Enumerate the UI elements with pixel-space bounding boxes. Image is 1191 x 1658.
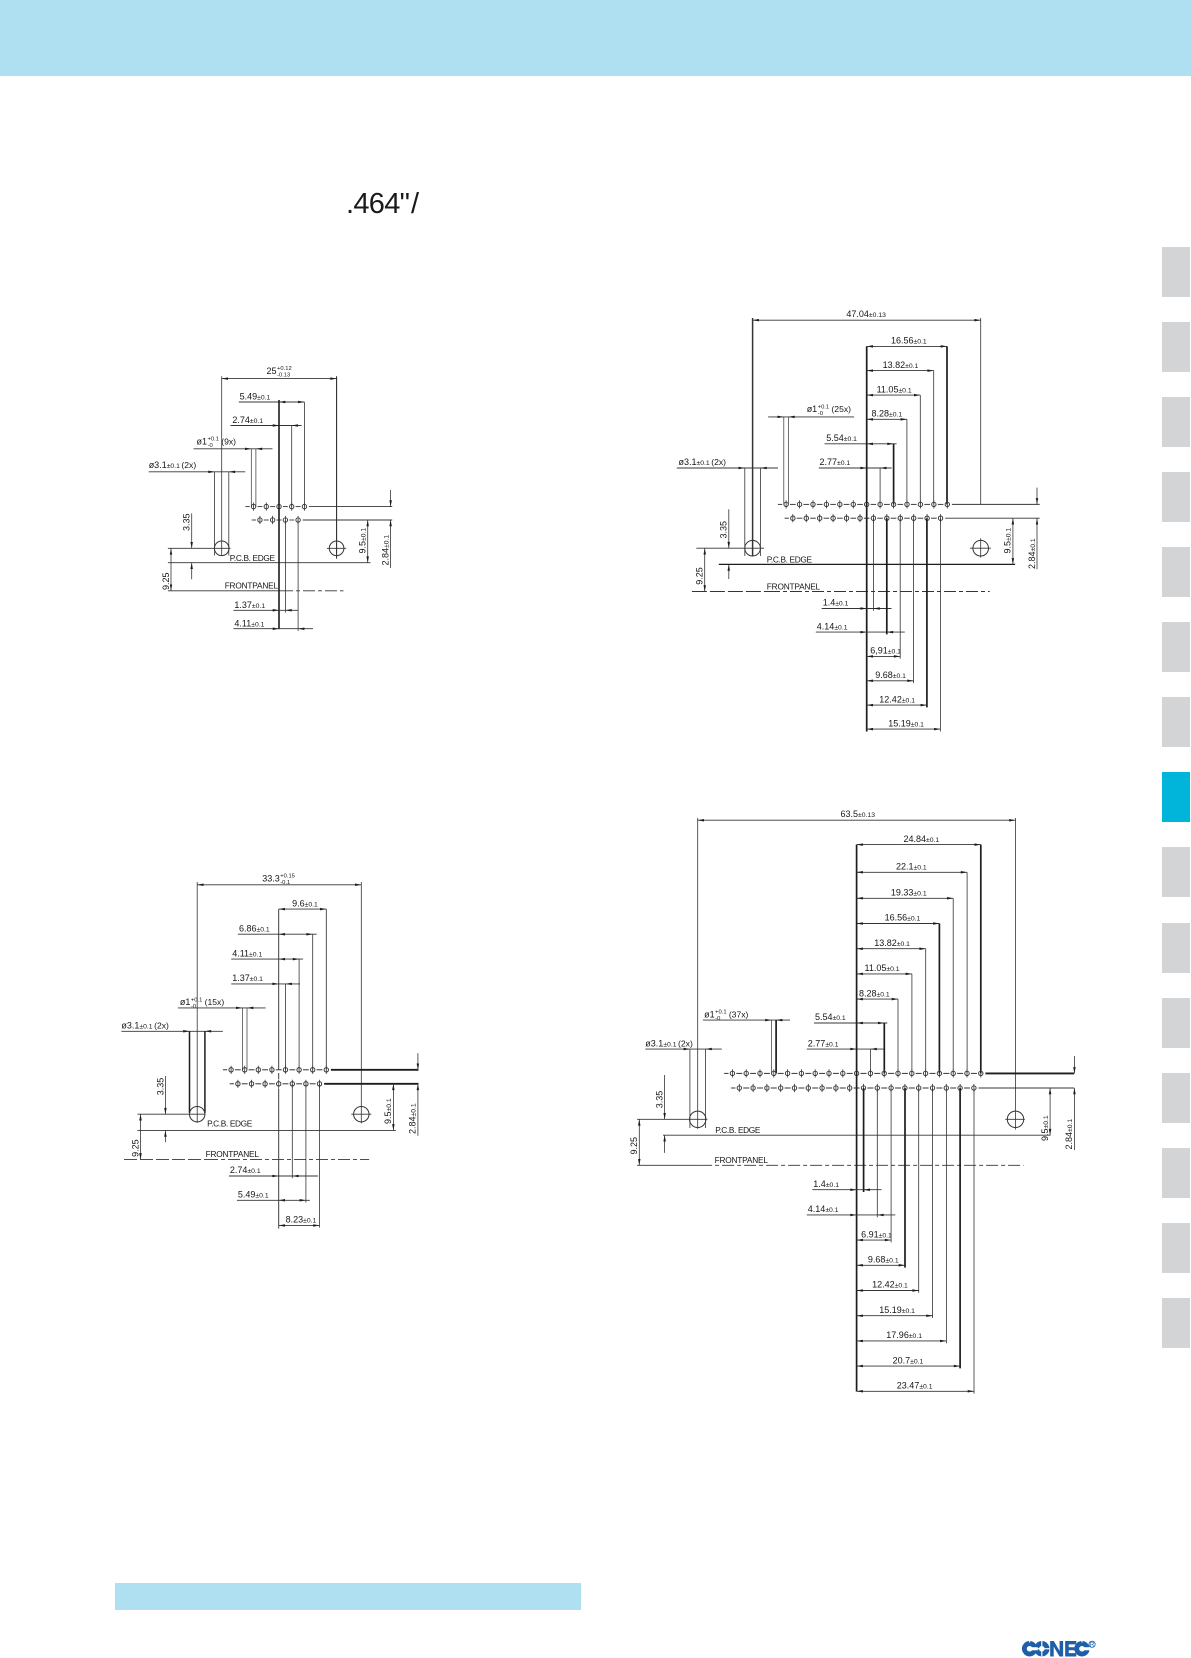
drawing4 dim 2.84 right	[1064, 1056, 1076, 1150]
drawing4 dim 5.54	[814, 1012, 887, 1024]
drawing2 mounting hole left	[696, 540, 764, 556]
drawing2 dim 2.84 right	[1027, 488, 1038, 570]
drawing4 ext line 9.68 bottom	[904, 1088, 906, 1268]
svg-text:1.37±0.1: 1.37±0.1	[232, 973, 263, 983]
drawing4 dim dia1 (37x)	[703, 1010, 790, 1023]
svg-text:5.49±0.1: 5.49±0.1	[238, 1190, 269, 1200]
svg-text:11.05±0.1: 11.05±0.1	[877, 384, 912, 394]
drawing1 PCB edge line	[168, 553, 371, 563]
drawing4 ext line 12.42 bottom	[918, 1088, 920, 1293]
drawing4 ext line 11.05	[911, 974, 913, 1074]
drawing2 ext line 11.05	[919, 395, 921, 504]
drawing2 dim 9.5 right	[1003, 518, 1014, 564]
drawing3 dia3.1 tangent ext lines	[190, 1031, 205, 1113]
svg-text:6.86±0.1: 6.86±0.1	[239, 923, 270, 933]
drawing4 ext line 1.4 bottom	[863, 1088, 865, 1192]
svg-text:FRONTPANEL: FRONTPANEL	[206, 1149, 260, 1159]
drawing3 dim 4.11	[231, 948, 303, 960]
svg-text:9.5±0.1: 9.5±0.1	[358, 528, 368, 554]
drawing4 ext line 5.54 thick	[883, 1023, 885, 1073]
svg-text:5.54±0.1: 5.54±0.1	[826, 433, 857, 443]
drawing2 frontpanel line	[692, 581, 990, 591]
drawing4 dim 20.7 bottom	[857, 1355, 961, 1367]
drawing4 dim 9.5 right	[1040, 1088, 1051, 1141]
drawing1 dia1 tangent ext lines	[251, 449, 256, 507]
drawing4 frontpanel line	[637, 1155, 1024, 1165]
drawing1 mounting hole left	[168, 541, 231, 556]
drawing1 bottom row pins (4x)	[258, 516, 301, 524]
drawing2 dim 47.04	[753, 309, 981, 321]
svg-text:2.77±0.1: 2.77±0.1	[820, 457, 851, 467]
svg-text:47.04±0.13: 47.04±0.13	[846, 309, 886, 319]
drawing1 frontpanel line	[168, 581, 344, 591]
svg-text:23.47±0.1: 23.47±0.1	[897, 1381, 933, 1391]
drawing3 ext line 5.49	[305, 1084, 307, 1203]
svg-text:20.7±0.1: 20.7±0.1	[893, 1355, 924, 1365]
svg-text:1.4±0.1: 1.4±0.1	[813, 1179, 839, 1189]
drawing3 dim 2.84 right	[408, 1053, 419, 1136]
drawing1 dim 2.74	[231, 415, 302, 427]
drawing4 dim 9.25	[629, 1119, 641, 1165]
drawing2 dim 4.14 bottom	[816, 621, 905, 633]
drawing4 ext line 4.14 bottom	[876, 1088, 878, 1217]
drawing4 top pin row line	[724, 1072, 1074, 1074]
svg-text:15.19±0.1: 15.19±0.1	[888, 718, 924, 728]
drawing2 mounting hole right	[970, 538, 991, 557]
svg-text:9.5±0.1: 9.5±0.1	[1040, 1115, 1050, 1141]
drawing4 dim 12.42 bottom	[857, 1280, 919, 1292]
drawing4 dim 1.4 bottom	[812, 1179, 881, 1191]
drawing3 PCB edge line	[138, 1119, 396, 1131]
svg-text:4.14±0.1: 4.14±0.1	[817, 621, 848, 631]
svg-text:25+0.12-0.13: 25+0.12-0.13	[267, 366, 292, 379]
svg-text:16.56±0.1: 16.56±0.1	[891, 336, 927, 346]
drawing3 dim 5.49	[237, 1190, 310, 1202]
svg-text:P.C.B. EDGE: P.C.B. EDGE	[715, 1125, 761, 1135]
drawing4 dim dia3.1 (2x)	[645, 1038, 722, 1050]
svg-text:6.91±0.1: 6.91±0.1	[861, 1229, 892, 1239]
drawing2 dim 8.28	[867, 409, 907, 421]
drawing3 centerline	[278, 909, 280, 1228]
drawing2 ext line 2.77	[879, 468, 881, 504]
drawing2 ext line 6,91 bottom	[899, 518, 901, 659]
drawing3 top row pins (8x)	[229, 1066, 329, 1074]
drawing1 dim 25 +0.12/-0.13	[222, 366, 337, 380]
drawing2 dim dia3.1 (2x)	[677, 457, 778, 469]
drawing1 bottom pin row line	[252, 519, 393, 521]
drawing4 dim 8.28	[857, 988, 898, 1000]
svg-text:3.35: 3.35	[155, 1078, 165, 1096]
svg-text:9.6±0.1: 9.6±0.1	[292, 898, 318, 908]
drawing3 frontpanel line	[124, 1149, 369, 1159]
drawing3 dim 8.23	[279, 1215, 320, 1227]
svg-text:P.C.B. EDGE: P.C.B. EDGE	[767, 555, 813, 565]
drawing4 ext line 2.77	[870, 1049, 872, 1073]
svg-text:2.84±0.1: 2.84±0.1	[380, 535, 390, 566]
drawing3 ext line 6.86	[312, 934, 314, 1070]
svg-text:9.5±0.1: 9.5±0.1	[383, 1098, 393, 1124]
drawing1 top row pins (5x)	[251, 503, 306, 511]
CONEC logo	[1022, 1640, 1096, 1658]
drawing3 ext line 9.6	[325, 909, 327, 1070]
svg-text:8.28±0.1: 8.28±0.1	[872, 409, 903, 419]
drawing2 ext line 16.56	[946, 346, 948, 504]
drawing1 dim 4.11	[233, 619, 313, 630]
drawing4 dim 3.35	[654, 1075, 666, 1153]
drawing1 dim25 left extension line	[221, 376, 223, 556]
drawing2 ext line 4.14 bottom	[886, 518, 888, 634]
drawing4 mounting hole left	[637, 1111, 707, 1127]
drawing2 ext line 13.82	[933, 371, 935, 505]
drawing4 ext line 16.56	[938, 924, 940, 1074]
drawing2 dim 2.77	[819, 457, 892, 469]
svg-text:9.5±0.1: 9.5±0.1	[1003, 528, 1013, 554]
svg-text:11.05±0.1: 11.05±0.1	[865, 963, 900, 973]
svg-text:5.54±0.1: 5.54±0.1	[815, 1012, 846, 1022]
drawing2 ext line 9.68 bottom	[913, 518, 915, 683]
svg-text:ø3.1±0.1(2x): ø3.1±0.1(2x)	[679, 457, 727, 467]
drawing2 dim 16.56	[867, 336, 947, 348]
drawing4 ext line 20.7 bottom	[959, 1088, 961, 1368]
svg-text:2.77±0.1: 2.77±0.1	[808, 1038, 839, 1048]
svg-text:ø3.1±0.1(2x): ø3.1±0.1(2x)	[149, 460, 197, 470]
drawing1 ext line pin4 top	[291, 426, 293, 507]
svg-text:3.35: 3.35	[719, 521, 729, 539]
drawing1 dim 2.84 right	[380, 490, 392, 568]
drawing4 dim 16.56	[857, 913, 940, 925]
svg-text:13.82±0.1: 13.82±0.1	[883, 360, 919, 370]
svg-text:8.28±0.1: 8.28±0.1	[859, 988, 890, 998]
svg-text:2.84±0.1: 2.84±0.1	[408, 1103, 418, 1134]
svg-text:9.25: 9.25	[161, 572, 171, 590]
drawing1 mounting hole right	[327, 541, 346, 556]
drawing4 ext line 22.1	[966, 872, 968, 1073]
drawing4 dim63 left extension line	[697, 818, 699, 1129]
svg-text:ø3.1±0.1(2x): ø3.1±0.1(2x)	[645, 1038, 693, 1048]
svg-text:12.42±0.1: 12.42±0.1	[872, 1280, 908, 1290]
drawing4 dim 17.96 bottom	[857, 1330, 947, 1342]
drawing1 dim 3.35	[181, 513, 193, 579]
drawing2 ext line 1.4 bottom	[873, 518, 875, 611]
drawing2 dim 9.25	[695, 548, 707, 591]
drawing1 ext line pin5 top	[303, 402, 305, 507]
drawing4 dim 63.5	[698, 809, 1016, 821]
svg-text:ø3.1±0.1(2x): ø3.1±0.1(2x)	[121, 1021, 169, 1031]
drawing2 dim47 left extension line	[752, 318, 754, 557]
svg-text:9.25: 9.25	[131, 1139, 141, 1157]
drawing4 dim 9.68 bottom	[857, 1255, 905, 1267]
svg-text:16.56±0.1: 16.56±0.1	[885, 913, 921, 923]
drawing4 top row pins (19x)	[730, 1069, 983, 1077]
drawing3 ext line 1.37	[285, 984, 287, 1070]
drawing1 top pin row line	[245, 506, 392, 508]
drawing4 dim 19.33	[857, 888, 954, 900]
drawing4 ext line 15.19 bottom	[932, 1088, 934, 1318]
drawing3 top pin row line	[223, 1069, 419, 1071]
drawing3 dim 9.5 right	[383, 1084, 394, 1131]
drawing3 ext line 8.23	[319, 1084, 321, 1228]
drawing3 dim 2.74	[229, 1165, 318, 1177]
drawing3 dim 9.25	[131, 1114, 142, 1159]
drawing3 mounting hole right	[351, 1107, 371, 1122]
drawing4 dim 6.91 bottom	[857, 1229, 892, 1241]
svg-text:19.33±0.1: 19.33±0.1	[891, 888, 927, 898]
drawing4 ext line 23.47 bottom	[973, 1088, 975, 1394]
drawing4 ext line 6.91 bottom	[890, 1088, 892, 1242]
drawing2 ext line 15.19 bottom	[939, 518, 941, 731]
drawing2 dim47 right extension line	[980, 318, 982, 504]
drawing1 ext line pin3 bottom	[284, 520, 286, 613]
svg-text:ø1+0.1-0(9x): ø1+0.1-0(9x)	[197, 436, 237, 449]
drawing4 dim63 right extension line	[1015, 818, 1017, 1130]
svg-text:63.5±0.13: 63.5±0.13	[841, 809, 876, 819]
svg-text:9.68±0.1: 9.68±0.1	[875, 670, 906, 680]
drawing4 dim 4.14 bottom	[807, 1204, 896, 1216]
drawing3 bottom pin row line	[230, 1083, 419, 1085]
svg-text:ø1+0.1-0(25x): ø1+0.1-0(25x)	[807, 404, 851, 417]
drawing4 dim 23.47 bottom	[857, 1381, 974, 1393]
svg-text:9.25: 9.25	[629, 1137, 639, 1155]
drawing1 dim dia1 (9x)	[194, 436, 273, 450]
svg-text:P.C.B. EDGE: P.C.B. EDGE	[230, 553, 276, 563]
drawing3 dim 9.6	[279, 898, 327, 910]
drawing2 dim 13.82	[867, 360, 934, 372]
drawing2 dim 5.54	[825, 433, 897, 445]
drawing1 dim 1.37	[233, 600, 298, 611]
drawing4 dim 13.82	[857, 938, 926, 950]
drawing2 dim 11.05	[867, 384, 921, 396]
drawing3 dim 3.35	[155, 1076, 166, 1142]
drawing4 dia3.1 tangent ext lines	[690, 1049, 706, 1128]
svg-text:5.49±0.1: 5.49±0.1	[240, 391, 271, 401]
drawing2 bottom row pins (12x)	[791, 514, 943, 522]
svg-text:1.37±0.1: 1.37±0.1	[234, 600, 265, 610]
drawing2 PCB edge line	[719, 555, 1015, 565]
svg-text:2.84±0.1: 2.84±0.1	[1027, 538, 1037, 569]
svg-text:4.11±0.1: 4.11±0.1	[234, 619, 264, 629]
drawing2 dim 3.35	[719, 509, 731, 579]
drawing4 ext line 13.82	[925, 949, 927, 1074]
drawing2 ext line 8.28	[906, 419, 908, 504]
drawing3 dim dia1 (15x)	[178, 997, 266, 1010]
drawing4 ext line 17.96 bottom	[945, 1088, 947, 1343]
drawing1 dim 9.5 right	[358, 520, 369, 563]
svg-text:8.23±0.1: 8.23±0.1	[286, 1215, 317, 1225]
drawing2 ext line 12.42 bottom	[926, 518, 928, 707]
svg-text:P.C.B. EDGE: P.C.B. EDGE	[207, 1119, 253, 1129]
drawing4 mounting hole right	[1005, 1111, 1025, 1127]
drawing2 top pin row line	[778, 503, 1040, 505]
svg-text:FRONTPANEL: FRONTPANEL	[225, 581, 279, 591]
svg-text:4.14±0.1: 4.14±0.1	[808, 1204, 839, 1214]
svg-text:9.25: 9.25	[695, 567, 705, 585]
drawing1 dim25 right extension line	[336, 376, 338, 558]
header bar	[0, 0, 1191, 76]
svg-text:33.3+0.15-0.1: 33.3+0.15-0.1	[262, 874, 295, 887]
svg-text:2.84±0.1: 2.84±0.1	[1064, 1119, 1074, 1150]
drawing4 dim 15.19 bottom	[857, 1305, 933, 1317]
drawing3 ext line 4.11	[298, 959, 300, 1070]
drawing2 dim 9.68 bottom	[867, 670, 914, 682]
svg-text:1.4±0.1: 1.4±0.1	[823, 598, 849, 608]
drawing1 dim dia3.1 (2x)	[149, 460, 246, 473]
drawing4 ext line 8.28	[897, 999, 899, 1073]
drawing3 dim33 left extension line	[196, 882, 198, 1123]
drawing1 dia3.1 tangent ext lines	[215, 472, 229, 556]
drawing4 centerline	[856, 845, 858, 1392]
svg-text:17.96±0.1: 17.96±0.1	[886, 1330, 922, 1340]
drawing2 dim 6,91 bottom	[867, 646, 901, 658]
svg-text:6,91±0.1: 6,91±0.1	[870, 646, 901, 656]
svg-text:FRONTPANEL: FRONTPANEL	[767, 581, 821, 591]
drawing1 dim 5.49	[239, 391, 305, 403]
drawing4 dim 24.84	[857, 834, 981, 846]
drawing3 dim dia3.1 (2x)	[121, 1021, 222, 1033]
drawing1 ext line pin4 bottom	[297, 520, 299, 631]
svg-text:3.35: 3.35	[181, 513, 191, 531]
drawing2 dia1 tangent ext lines	[784, 417, 789, 505]
footer bar	[115, 1583, 581, 1610]
svg-text:3.35: 3.35	[654, 1091, 664, 1109]
drawing2 dia3.1 tangent ext lines	[745, 468, 761, 556]
svg-text:12.42±0.1: 12.42±0.1	[879, 694, 915, 704]
drawing3 dim 1.37	[231, 973, 300, 985]
drawing1 centerline	[278, 400, 280, 629]
svg-text:9.68±0.1: 9.68±0.1	[868, 1255, 899, 1265]
svg-text:24.84±0.1: 24.84±0.1	[904, 834, 940, 844]
drawing2 bottom pin row line	[785, 517, 1040, 519]
drawing3 dim 33.3 +0.15/-0.1	[197, 874, 361, 887]
drawing2 dim dia1 (25x)	[768, 404, 854, 418]
drawing2 dim 15.19 bottom	[867, 718, 941, 730]
drawing1 dim 9.25	[161, 548, 172, 591]
drawing4 dia1 tangent ext lines	[772, 1020, 777, 1073]
drawing4 bottom row pins (18x)	[737, 1084, 976, 1092]
drawing2 centerline	[866, 346, 868, 731]
drawing4 PCB edge line	[663, 1125, 1051, 1135]
drawing2 dim 12.42 bottom	[867, 694, 927, 706]
drawing3 dim 6.86	[238, 923, 317, 935]
drawing2 top row pins (13x)	[784, 500, 950, 508]
right side tab rail	[1162, 247, 1190, 297]
drawing3 dim33 right extension line	[360, 882, 362, 1124]
drawing4 ext line 19.33	[952, 898, 954, 1073]
svg-text:FRONTPANEL: FRONTPANEL	[715, 1155, 769, 1165]
svg-text:13.82±0.1: 13.82±0.1	[874, 938, 910, 948]
drawing4 ext line 24.84	[980, 845, 982, 1074]
svg-text:15.19±0.1: 15.19±0.1	[879, 1305, 915, 1315]
drawing4 dim 11.05	[857, 963, 912, 975]
drawing3 ext line 2.74	[291, 1084, 293, 1178]
drawing2 dim 1.4 bottom	[822, 598, 892, 610]
svg-text:2.74±0.1: 2.74±0.1	[230, 1165, 261, 1175]
drawing3 bottom row pins (7x)	[236, 1080, 322, 1088]
drawing4 dim 2.77	[807, 1038, 884, 1050]
drawing3 dia1 tangent ext lines	[242, 1008, 247, 1070]
svg-text:22.1±0.1: 22.1±0.1	[896, 862, 927, 872]
drawing4 dim 22.1	[857, 862, 968, 874]
drawing3 mounting hole left	[138, 1107, 206, 1122]
drawing4 bottom pin row line	[731, 1087, 1074, 1089]
drawing2 ext line 5.54 thick	[893, 444, 895, 505]
page title .464&quot;/	[346, 188, 418, 221]
svg-text:2.74±0.1: 2.74±0.1	[232, 415, 263, 425]
svg-text:4.11±0.1: 4.11±0.1	[232, 948, 262, 958]
